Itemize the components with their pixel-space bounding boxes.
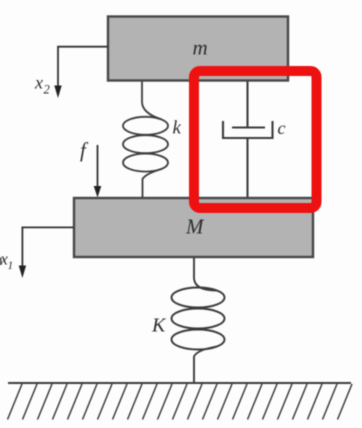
svg-text:c: c [278, 118, 286, 138]
svg-text:K: K [151, 315, 167, 337]
svg-text:M: M [185, 215, 205, 239]
svg-text:k: k [173, 118, 182, 139]
svg-text:x: x [34, 73, 43, 93]
svg-text:m: m [193, 36, 208, 60]
svg-text:1: 1 [8, 260, 14, 272]
svg-text:2: 2 [44, 83, 50, 97]
